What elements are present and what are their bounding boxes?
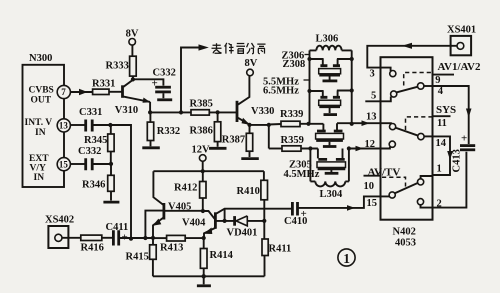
wire C411 to V-amp input (120, 237, 155, 239)
node R339/R359 branch (267, 123, 271, 127)
ceramic filter Z306 (310, 59, 352, 81)
resistor R414 (203, 238, 205, 249)
svg-text:R411: R411 (269, 244, 292, 255)
ground (C332) (157, 98, 172, 101)
svg-text:R346: R346 (82, 180, 105, 191)
transistor V405 (162, 203, 165, 220)
svg-text:XS401: XS401 (447, 25, 476, 36)
svg-text:3: 3 (370, 69, 375, 80)
pin 1 contact (418, 179, 424, 185)
N300 box (23, 65, 65, 187)
resistor R415 (152, 238, 154, 245)
wire collector node to C332 (133, 79, 164, 85)
arrow down on link (447, 151, 453, 160)
node 13line joins (129, 237, 133, 241)
pin 2 contact (417, 199, 423, 205)
terminal 8V circle (V330) (247, 69, 254, 76)
svg-text:V330: V330 (251, 106, 274, 117)
svg-text:7: 7 (61, 87, 66, 97)
svg-text:12V: 12V (192, 145, 211, 156)
pin 4 wire to C413 (433, 86, 469, 144)
node lower right rail (347, 146, 351, 150)
svg-text:R386: R386 (190, 126, 213, 137)
pin 7 circle (57, 85, 70, 98)
pin 4 wire (424, 85, 433, 87)
pin 15 circle (57, 158, 70, 171)
svg-text:C410: C410 (284, 216, 307, 227)
wire 12V rail (153, 161, 264, 171)
IC N402 box (381, 57, 433, 220)
svg-text:13: 13 (366, 112, 377, 123)
svg-text:9: 9 (435, 75, 440, 86)
svg-text:V404: V404 (182, 218, 206, 229)
svg-text:R359: R359 (281, 135, 304, 146)
svg-text:XS402: XS402 (45, 215, 74, 226)
control dash switch1 (pin 9) (404, 73, 433, 86)
wire XS401 to pin 3 (367, 46, 457, 71)
capacitor C410 (264, 208, 291, 210)
wire main video line (150, 111, 191, 113)
node V405 emitter/R415 (151, 236, 155, 240)
svg-text:8V: 8V (245, 58, 258, 69)
control dash switch2 (pin 11) (406, 117, 433, 130)
ceramic filter Z305 (317, 149, 346, 174)
svg-text:4.5MHz: 4.5MHz (284, 169, 320, 180)
arrow down on pin4 wire (466, 109, 472, 118)
node rail Z308 right (350, 88, 354, 92)
node R412 bottom / bases (201, 209, 205, 213)
ground (R332) (142, 146, 160, 149)
resistor R359 (282, 146, 301, 151)
svg-text:1: 1 (437, 164, 442, 175)
inductor L306 (310, 46, 352, 51)
resistor R345 (110, 125, 112, 134)
wire 8V to V330 collector (238, 76, 249, 105)
arrow on AV in wire (402, 43, 412, 49)
switch 2 pole contact (418, 133, 424, 139)
wire XS402 to R416 (62, 237, 81, 239)
wire filter out to pin 12 (349, 147, 390, 149)
svg-text:L304: L304 (320, 189, 344, 200)
wire rail to V405 collector (153, 171, 164, 205)
ground (bottom rail) (203, 276, 205, 284)
ceramic filter (4.5MHz upper) (316, 123, 344, 146)
svg-text:R413: R413 (160, 243, 183, 254)
label 去伴音分离 (pseudo glyphs) (212, 43, 266, 54)
resistor R332 (149, 112, 151, 122)
pin 9 wire (433, 74, 455, 76)
svg-text:R387: R387 (222, 135, 245, 146)
node rail Z306 right (350, 57, 354, 61)
resistor R385 (191, 110, 209, 115)
pin 12 contact (389, 141, 395, 147)
wire R416 to C411 (102, 237, 112, 239)
node R345/R346 (109, 162, 113, 166)
svg-text:R339: R339 (280, 109, 303, 120)
node collector V310 (131, 77, 135, 81)
switch 2 arm (pole to pin13) (395, 128, 418, 136)
wire right rail (upper) (351, 50, 353, 123)
svg-text:R332: R332 (157, 126, 180, 137)
svg-text:R414: R414 (210, 250, 234, 261)
wire emitter V310 down (149, 102, 151, 113)
svg-text:L306: L306 (316, 34, 339, 45)
connector XS401 (451, 36, 472, 55)
svg-text:SYS: SYS (436, 104, 456, 116)
resistor R413 (155, 237, 167, 239)
transistor V330 (236, 101, 239, 122)
svg-text:Z308: Z308 (283, 59, 306, 70)
node base takeoff (143, 236, 147, 240)
wire R339 to filter rail (300, 123, 323, 125)
pin 10 wire stub (364, 175, 381, 177)
svg-text:V/Y: V/Y (30, 164, 47, 174)
pin 3 contact (390, 71, 396, 77)
svg-text:AV1/AV2: AV1/AV2 (438, 61, 481, 73)
node R345 top (108, 123, 112, 127)
arrow into pin 13 (362, 120, 370, 126)
svg-text:OUT: OUT (31, 96, 52, 106)
wire R359 to Z305 block (301, 148, 318, 150)
svg-text:15: 15 (367, 198, 378, 209)
svg-text:EXT: EXT (29, 154, 49, 164)
resistor R416 (81, 235, 102, 240)
resistor R387 (249, 125, 251, 133)
svg-text:N402: N402 (393, 227, 416, 238)
diode VD401 (233, 216, 236, 226)
pin 5 wire stub (365, 97, 391, 102)
node rail Z306 left (307, 57, 311, 61)
svg-text:12: 12 (365, 139, 376, 150)
node left rail bottom (306, 122, 310, 126)
wire left rail (lower) to L304 (309, 149, 311, 182)
svg-text:R415: R415 (126, 252, 149, 263)
svg-text:11: 11 (437, 118, 447, 129)
node V404 emitter/R413/R414 (202, 236, 206, 240)
node main/takeoff (179, 110, 183, 114)
figure number ① (338, 249, 355, 266)
wire left rail (upper) (309, 50, 311, 123)
wire filter out to pin 13 (337, 123, 391, 124)
resistor R333 (130, 56, 137, 76)
wire takeoff to sound separation (181, 48, 199, 113)
wire right rail (lower) (348, 149, 350, 182)
resistor R331 (93, 89, 109, 94)
pin 13 contact (390, 124, 396, 130)
pin 11 wire stub (433, 115, 451, 117)
svg-text:C413: C413 (452, 149, 463, 172)
pin 5 contact (391, 91, 397, 97)
node main/R386 (216, 110, 220, 114)
svg-text:CVBS: CVBS (29, 86, 54, 96)
wire pin7 to R331 (70, 91, 93, 93)
wire pin13 line (70, 124, 84, 126)
resistor R386 (217, 112, 219, 121)
svg-text:5: 5 (371, 91, 376, 102)
wire branch down to R359 line (268, 125, 270, 149)
svg-text:R410: R410 (237, 186, 260, 197)
svg-text:R412: R412 (174, 183, 197, 194)
node L304 left (308, 146, 312, 150)
wire R333 to collector node (132, 76, 134, 79)
ground (R346) (103, 201, 119, 204)
node right rail bottom (350, 122, 354, 126)
node V330 emitter (247, 123, 251, 127)
svg-text:6.5MHz: 6.5MHz (263, 86, 299, 97)
svg-text:15: 15 (59, 159, 69, 169)
terminal 8V circle (left) (129, 39, 136, 46)
svg-text:4053: 4053 (395, 238, 416, 249)
wire to R359 (269, 148, 282, 150)
pin 15 wire (298, 196, 389, 208)
node rail Z308 left (307, 89, 311, 93)
svg-text:4: 4 (438, 86, 444, 97)
svg-text:R345: R345 (84, 135, 107, 146)
svg-text:R385: R385 (190, 99, 213, 110)
svg-text:C332: C332 (78, 146, 101, 157)
arrow into pin 12 (356, 146, 364, 152)
svg-text:14: 14 (436, 138, 447, 149)
transistor V310 (121, 85, 124, 98)
ground (R387) (241, 157, 258, 160)
svg-text:N300: N300 (29, 53, 52, 64)
svg-text:1: 1 (343, 251, 350, 266)
svg-text:13: 13 (59, 121, 69, 131)
IC N300 block (23, 53, 71, 187)
svg-text:IN: IN (35, 128, 46, 138)
resistor R412 (202, 171, 204, 181)
wire emitter to R339 node (250, 124, 269, 126)
pin 15 contact (389, 192, 395, 198)
wire 8V to R333 (131, 45, 133, 56)
pin 1 interior wire (421, 176, 433, 179)
resistor R411 (262, 239, 268, 256)
ceramic filter Z308 (310, 91, 352, 115)
svg-text:R333: R333 (106, 60, 129, 71)
svg-text:R416: R416 (81, 243, 104, 254)
svg-text:IN: IN (34, 173, 45, 183)
arrow into pin 15 (347, 205, 355, 211)
wire pin15 line (70, 163, 84, 165)
terminal 12V circle (199, 155, 206, 162)
pin 2 wire to C413 (421, 152, 467, 208)
link pin14 to pin1 (433, 136, 451, 175)
arrow to sound sep (199, 44, 209, 50)
svg-text:VD401: VD401 (227, 228, 258, 239)
wire rail to R410 (263, 171, 265, 180)
node VD401/R410 (262, 219, 266, 223)
node ground rail (202, 274, 206, 278)
resistor R339 (281, 121, 300, 126)
arrow on CVBS wire (79, 89, 88, 95)
svg-text:+: + (461, 133, 467, 145)
pin 14 wire (424, 135, 433, 137)
svg-text:R331: R331 (92, 79, 115, 90)
switch 1 arm (pole to pin5) (396, 87, 418, 93)
svg-text:V310: V310 (115, 105, 138, 116)
pin 13 circle (57, 119, 70, 132)
resistor R346 (110, 164, 112, 175)
switch 1 pole contact (418, 83, 424, 89)
svg-text:C331: C331 (79, 107, 102, 118)
transistor V404 (214, 212, 217, 228)
switch 3 arm (15 pole to pin1) (395, 183, 418, 193)
wire V404 to VD401 (216, 220, 233, 222)
svg-text:INT. V: INT. V (25, 118, 53, 128)
svg-text:10: 10 (364, 181, 375, 192)
control dash switch3 (pin 10) (382, 177, 406, 186)
wire to R339 (269, 123, 281, 126)
resistor R410 (261, 180, 268, 200)
wire bottom rail (153, 275, 265, 277)
node main/R332 (148, 110, 152, 114)
ground (R386) (209, 147, 227, 150)
inductor L304 (310, 181, 349, 186)
